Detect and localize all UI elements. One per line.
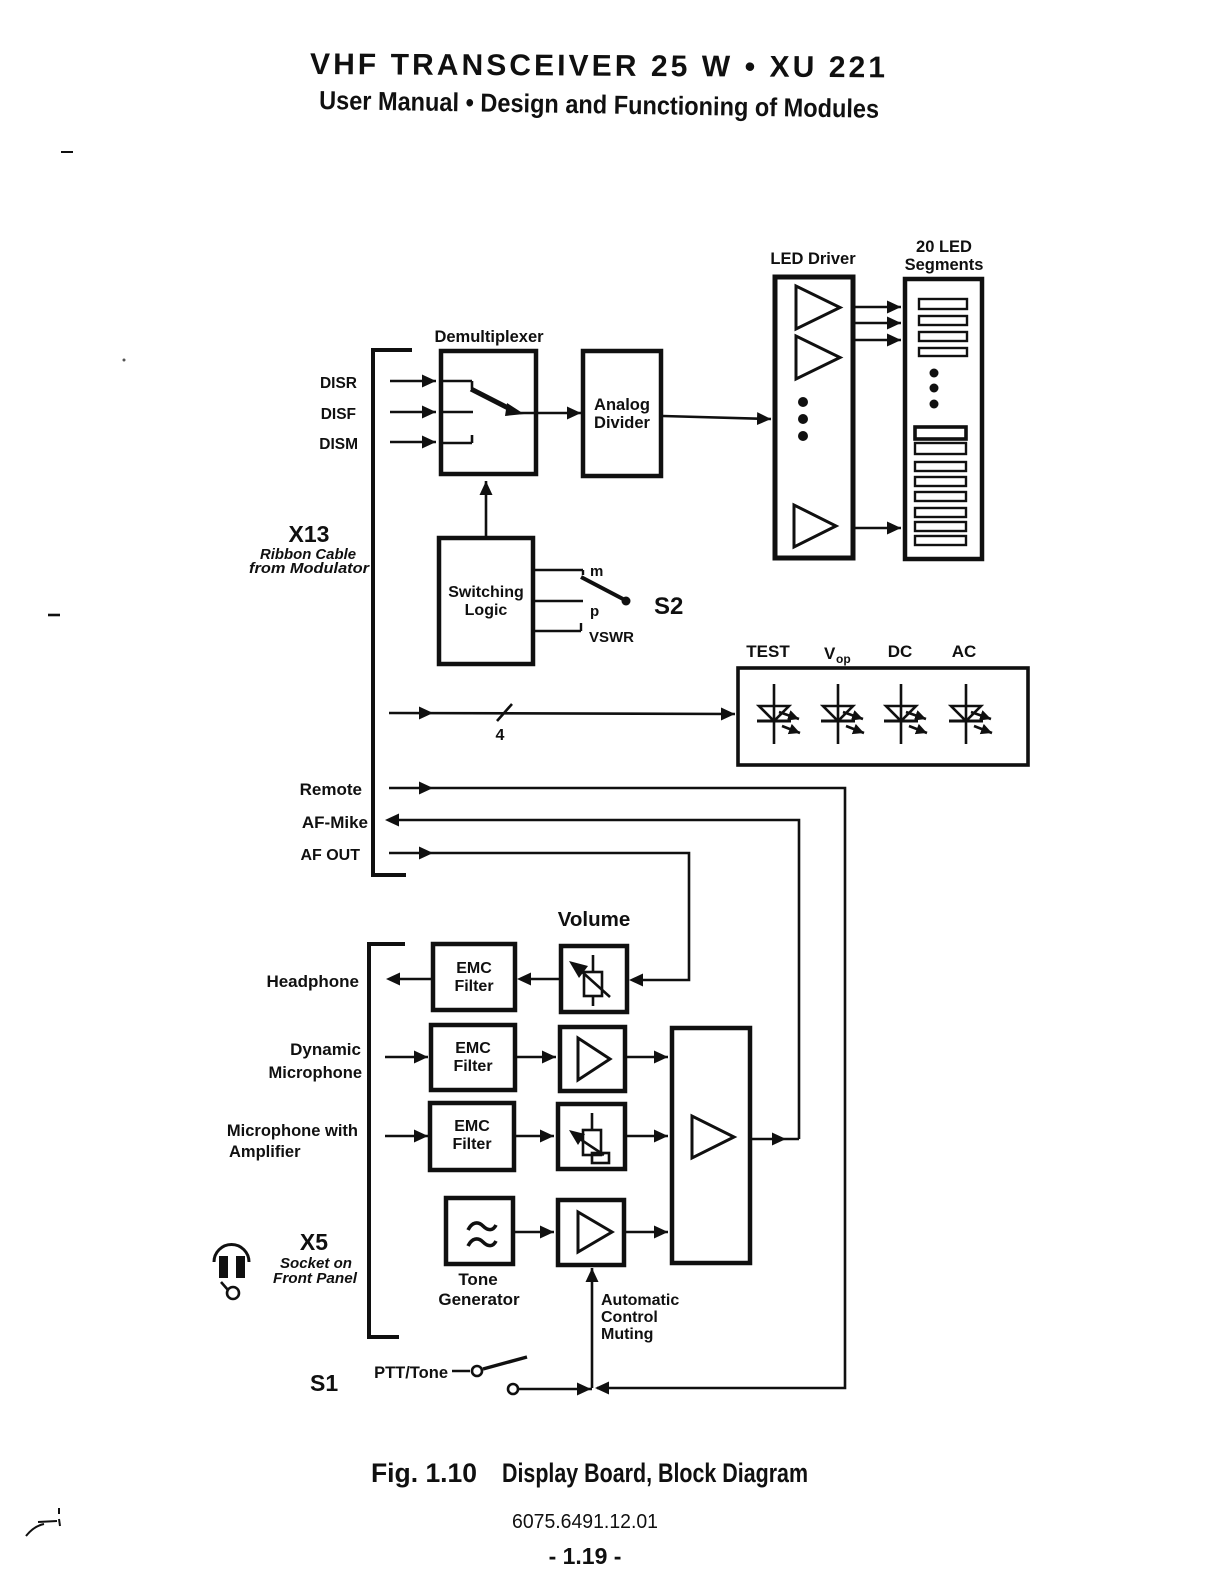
svg-text:PTT/Tone: PTT/Tone (374, 1364, 448, 1382)
svg-text:Analog: Analog (594, 396, 650, 414)
svg-text:LED Driver: LED Driver (770, 250, 856, 268)
svg-text:DISF: DISF (321, 406, 356, 423)
svg-text:- 1.19 -: - 1.19 - (549, 1543, 622, 1569)
svg-text:Divider: Divider (594, 414, 651, 432)
svg-text:DC: DC (888, 642, 913, 661)
svg-text:S1: S1 (310, 1370, 338, 1396)
svg-text:Amplifier: Amplifier (229, 1143, 301, 1161)
svg-text:Segments: Segments (905, 256, 984, 274)
svg-text:VHF TRANSCEIVER 25 W • XU 221: VHF TRANSCEIVER 25 W • XU 221 (310, 48, 885, 84)
svg-text:S2: S2 (654, 593, 683, 620)
svg-text:Dynamic: Dynamic (290, 1040, 361, 1059)
svg-text:EMC: EMC (454, 1118, 490, 1135)
svg-text:User Manual • Design and Funct: User Manual • Design and Functioning of … (319, 85, 879, 124)
svg-text:X13: X13 (289, 521, 330, 547)
svg-text:Microphone with: Microphone with (227, 1122, 358, 1140)
svg-text:Filter: Filter (453, 1058, 492, 1075)
svg-text:op: op (836, 652, 851, 666)
svg-text:4: 4 (496, 727, 505, 744)
svg-text:DISM: DISM (319, 436, 358, 453)
svg-text:Front Panel: Front Panel (273, 1271, 358, 1287)
svg-text:TEST: TEST (746, 642, 790, 661)
svg-text:Automatic: Automatic (601, 1292, 679, 1309)
svg-text:Logic: Logic (465, 602, 508, 619)
svg-text:DISR: DISR (320, 375, 357, 392)
svg-text:AF OUT: AF OUT (300, 847, 360, 864)
svg-text:Switching: Switching (448, 584, 524, 601)
svg-text:from Modulator: from Modulator (249, 561, 371, 577)
svg-text:Demultiplexer: Demultiplexer (434, 328, 544, 346)
svg-text:Generator: Generator (438, 1290, 520, 1309)
svg-text:p: p (590, 603, 599, 620)
svg-text:m: m (590, 563, 603, 580)
svg-text:Fig. 1.10: Fig. 1.10 (371, 1458, 477, 1488)
svg-text:6075.6491.12.01: 6075.6491.12.01 (512, 1511, 658, 1533)
svg-text:AC: AC (952, 642, 977, 661)
svg-text:Tone: Tone (458, 1270, 497, 1289)
svg-text:Microphone: Microphone (269, 1064, 363, 1082)
svg-text:Filter: Filter (452, 1136, 491, 1153)
svg-text:EMC: EMC (456, 960, 492, 977)
svg-text:VSWR: VSWR (589, 629, 634, 646)
svg-text:Filter: Filter (454, 978, 493, 995)
svg-text:X5: X5 (300, 1229, 328, 1255)
svg-text:Volume: Volume (558, 908, 631, 931)
svg-text:20 LED: 20 LED (916, 238, 972, 256)
svg-text:Headphone: Headphone (266, 972, 359, 991)
svg-text:Display Board, Block Diagram: Display Board, Block Diagram (502, 1458, 808, 1488)
svg-text:Control: Control (601, 1309, 658, 1326)
svg-text:Socket on: Socket on (280, 1256, 352, 1272)
svg-text:Muting: Muting (601, 1326, 653, 1343)
svg-text:V: V (824, 644, 836, 663)
svg-text:AF-Mike: AF-Mike (302, 813, 368, 832)
svg-text:Remote: Remote (300, 780, 362, 799)
svg-text:EMC: EMC (455, 1040, 491, 1057)
